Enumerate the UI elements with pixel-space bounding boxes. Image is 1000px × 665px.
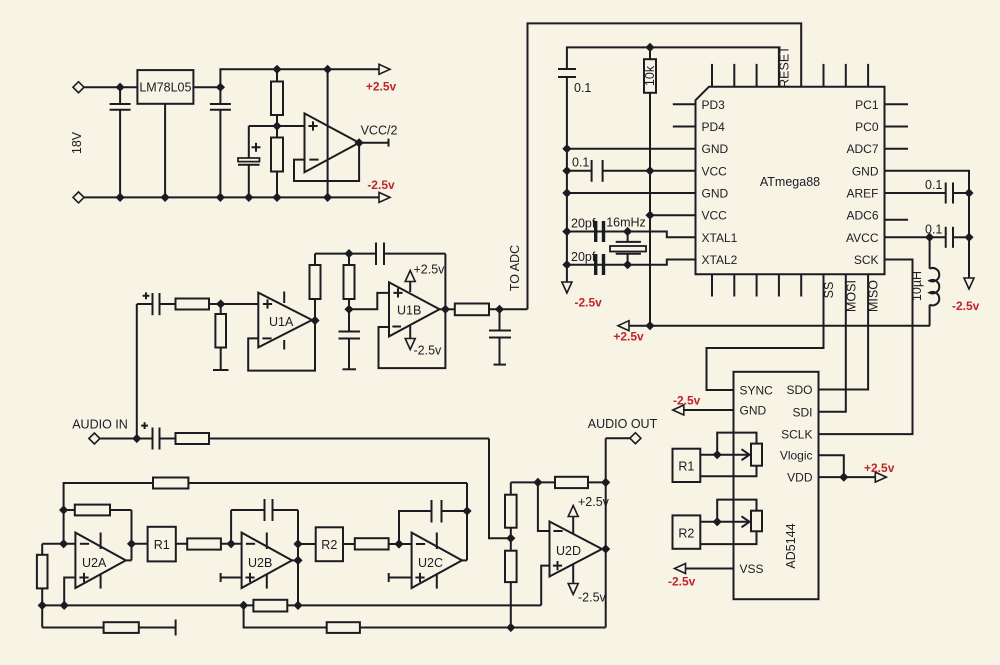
svg-text:GND: GND [702, 187, 729, 201]
wire feedback VCC/2 [294, 143, 359, 181]
wire pot2 loop bottom [700, 531, 756, 544]
svg-text:GND: GND [740, 404, 767, 418]
node gnd2 rail [562, 188, 571, 197]
wire U1A output [312, 320, 315, 322]
resistor R-fb-top [153, 478, 188, 489]
node U2B out [293, 556, 302, 565]
wire U1B -supply [409, 326, 411, 339]
wire VCC/2 output [359, 142, 388, 144]
wire U2A output [126, 559, 132, 561]
wire AREF row [885, 192, 946, 194]
wire lower row1 [42, 627, 175, 629]
wire U2D -supply [572, 564, 574, 584]
pin arrow U1B +2.5v [405, 271, 415, 282]
svg-text:-2.5v: -2.5v [367, 178, 395, 192]
wire VSS row [686, 568, 734, 570]
node u2d minus drop [533, 478, 542, 487]
node u2d fb rail [601, 478, 610, 487]
node cap-out bottom [216, 193, 225, 202]
node +2.5v 10k-rail [645, 321, 654, 330]
resistor R-u2c-in [343, 538, 412, 549]
pin stub top2 [733, 64, 735, 87]
wire top row to feedback cap [315, 253, 376, 255]
svg-text:10k: 10k [643, 65, 657, 86]
svg-text:18V: 18V [70, 131, 84, 154]
potentiometer P2 [751, 511, 762, 532]
wire U1B +supply [409, 281, 411, 292]
pin arrow right-rail -2.5v [964, 278, 974, 289]
pin arrow U1B -2.5v [405, 339, 415, 350]
wire bottom -2.5v rail [79, 196, 381, 198]
node audio-in split [132, 434, 141, 443]
resistor R-div-u2d-bot [505, 551, 517, 582]
svg-text:U2B: U2B [248, 556, 272, 570]
svg-text:ADC7: ADC7 [846, 142, 878, 156]
wire reset pullup row [567, 47, 779, 86]
capacitor C-reset 0.1 [558, 69, 591, 288]
node avcc ind [925, 233, 934, 242]
wire u2d minus [538, 482, 550, 531]
pin stub PD3 [673, 103, 696, 105]
potentiometer P1 [751, 444, 762, 466]
capacitor C-u2b [231, 499, 298, 521]
block R1 [148, 527, 176, 562]
svg-text:+2.5v: +2.5v [366, 80, 397, 94]
wire GND row [567, 148, 696, 150]
node U2B to R2 [293, 539, 302, 548]
wire top feedback row [64, 483, 467, 544]
wire +2.5v row [619, 325, 930, 327]
svg-text:PC0: PC0 [855, 120, 879, 134]
crystal X1 16mHz [606, 216, 646, 265]
pin stub ADC6 [885, 219, 909, 221]
wire divider chain [276, 69, 278, 197]
node railB bottom-row [38, 601, 47, 610]
svg-text:XTAL1: XTAL1 [702, 231, 738, 245]
resistor R-bottom [253, 600, 287, 612]
capacitor C-adc [489, 309, 511, 364]
pin stub top1 [711, 64, 713, 87]
svg-text:R1: R1 [154, 538, 170, 552]
svg-text:GND: GND [702, 142, 729, 156]
block R1-ad [673, 449, 701, 482]
pin power tick U2C top [436, 533, 438, 550]
svg-text:PC1: PC1 [855, 98, 879, 112]
wire U2A plus input [64, 578, 75, 606]
capacitor C-vcc 0.1 [572, 156, 696, 182]
svg-text:+2.5v: +2.5v [613, 330, 644, 344]
svg-text:ADC6: ADC6 [846, 209, 878, 223]
capacitor C-u2c [432, 500, 468, 523]
svg-text:VDD: VDD [787, 471, 813, 485]
IC U5 AD5144 [734, 372, 819, 599]
pin arrow U2D -2.5v [568, 584, 578, 595]
wire U1B output [440, 308, 455, 310]
svg-text:R2: R2 [321, 538, 337, 552]
wire MISO to SDO [819, 274, 869, 389]
svg-text:TO ADC: TO ADC [508, 245, 522, 291]
wire GND-ad row [684, 409, 734, 411]
node crystal top [623, 227, 632, 236]
wire to U2D divider [489, 439, 511, 539]
node VCC/2 output [355, 138, 364, 147]
wire U2B plus input [221, 577, 242, 579]
svg-text:0.1: 0.1 [574, 81, 591, 95]
svg-text:SYNC: SYNC [740, 384, 774, 398]
node cap-in bottom [116, 193, 125, 202]
capacitor C-u1b-fb [376, 243, 445, 266]
pin arrow +2.5v mcu [618, 321, 629, 331]
svg-text:LM78L05: LM78L05 [139, 81, 191, 95]
capacitor C-in [110, 87, 131, 197]
resistor R-u1a-in [176, 299, 259, 310]
node railA minus [59, 539, 68, 548]
svg-text:U2D: U2D [556, 544, 581, 558]
pin tick u1b-gnd [343, 368, 357, 370]
resistor R-u2b-in [176, 538, 242, 549]
wire pot1 wiper [700, 454, 748, 456]
wire pot1 loop top [717, 433, 756, 455]
wire railB [41, 544, 43, 628]
connector pin AUDIO OUT [630, 433, 641, 444]
op-amp U2B [242, 533, 292, 588]
inductor L1 10uH [910, 237, 939, 325]
wire MOSI to SDI [819, 274, 846, 412]
node u1b plus input [344, 305, 353, 314]
node divider mid [506, 534, 515, 543]
wire u2a minus row [42, 543, 75, 545]
pin arrow gnd-ad -2.5v [673, 405, 684, 415]
pin stub bottom4 [778, 274, 780, 296]
pin power tick U2A bottom [100, 574, 102, 588]
svg-text:R2: R2 [678, 526, 694, 540]
node vdd [839, 473, 848, 482]
node U1A output [310, 316, 319, 325]
resistor R-lower2 [327, 622, 360, 633]
svg-text:-2.5v: -2.5v [414, 344, 443, 358]
wire audio-out rail [605, 438, 607, 627]
wire U1A feedback [248, 321, 315, 371]
arrowhead pot1 wiper [742, 449, 750, 460]
node u2c out cap [462, 506, 471, 515]
svg-text:-2.5v: -2.5v [952, 299, 980, 313]
wire to R2 [298, 543, 316, 545]
svg-text:SCK: SCK [854, 253, 879, 267]
pin stub top7 [845, 64, 847, 87]
node crystal bottom [623, 260, 632, 269]
resistor R-u2a-fb [64, 505, 132, 516]
wire SCK row [819, 260, 913, 435]
node 10k top [645, 43, 654, 52]
pin arrow vdd +2.5v [875, 472, 886, 482]
svg-text:AUDIO OUT: AUDIO OUT [588, 417, 658, 431]
resistor R-u1a-fb vertical [310, 254, 321, 321]
wire divider chain [510, 482, 512, 627]
svg-text:-2.5v: -2.5v [575, 296, 603, 310]
capacitor C-u1a input polarized [137, 292, 176, 315]
pin tick u2b plus [220, 573, 222, 582]
pin arrow -2.5v [379, 192, 390, 202]
block R2 [316, 527, 343, 561]
pin stub bottom5 [800, 274, 802, 296]
wire U1B feedback [379, 254, 446, 369]
svg-text:+2.5v: +2.5v [864, 461, 895, 475]
wire audio out [606, 437, 632, 439]
op-amp U1A [258, 293, 312, 348]
svg-text:U2A: U2A [82, 556, 107, 570]
svg-text:VSS: VSS [740, 562, 764, 576]
resistor R-10k [643, 47, 657, 92]
wire +2.5v rail [220, 69, 380, 87]
svg-text:0.1: 0.1 [572, 156, 589, 170]
wire pot2 loop top [717, 500, 756, 522]
capacitor C-20pf-2 [571, 250, 605, 275]
pin power tick U2B top [266, 533, 268, 550]
wire Vlogic to VDD [819, 455, 844, 477]
svg-text:PD3: PD3 [702, 98, 726, 112]
pin stub bottom1 [711, 274, 713, 296]
svg-text:XTAL2: XTAL2 [702, 253, 738, 267]
node lower2 divider [506, 623, 515, 632]
svg-text:R1: R1 [678, 460, 694, 474]
svg-text:VCC: VCC [702, 209, 728, 223]
pin tick c-adc [494, 364, 507, 366]
pin tick VCC/2 [388, 139, 390, 147]
svg-text:AVCC: AVCC [846, 231, 879, 245]
wire GND2 row [567, 192, 696, 194]
svg-text:U2C: U2C [418, 556, 443, 570]
pin power tick U2A top [100, 533, 102, 550]
resistor R-u1b-out [455, 304, 528, 316]
node bottom u2b riser [293, 601, 302, 610]
resistor R-div-top [271, 82, 283, 116]
wire AVCC row [885, 236, 946, 238]
regulator U3 LM78L05 [137, 70, 193, 104]
capacitor C-avcc 0.1 [925, 223, 969, 248]
IC U4 ATmega88 [696, 87, 885, 275]
pin tick lower1 [175, 620, 177, 636]
svg-text:ATmega88: ATmega88 [760, 175, 820, 189]
node avcc rail [964, 233, 973, 242]
node U2D output [601, 544, 610, 553]
op-amp U2D [550, 522, 603, 577]
wire audio-in riser to U1A chain [136, 304, 138, 439]
node xtal1 rail [562, 227, 571, 236]
svg-text:VCC/2: VCC/2 [361, 124, 398, 138]
pin arrow U2D +2.5v [568, 506, 578, 517]
pin stub top6 [823, 64, 825, 87]
op-amp U2A [75, 533, 125, 588]
wire GND3 right [885, 171, 970, 284]
node adc cap [495, 305, 504, 314]
resistor R-div-u2d-top [505, 495, 517, 528]
op-amp U1B [389, 282, 440, 336]
op-amp U2C [412, 533, 462, 588]
wire into U1B plus [349, 293, 389, 309]
pin stub ADC7 [885, 148, 909, 150]
pin stub top3 [756, 64, 758, 87]
pin stub PC1 [885, 103, 909, 105]
svg-text:VCC: VCC [702, 164, 728, 178]
wire divider mid to cap and op-amp [249, 125, 305, 127]
wire VCC row left [567, 170, 592, 172]
capacitor C-20pf-1 [571, 217, 605, 243]
node divider bottom [272, 193, 281, 202]
pin power tick U2C bottom [436, 574, 438, 588]
svg-text:SDI: SDI [792, 405, 812, 419]
pin arrow left-rail -2.5v [562, 282, 572, 293]
svg-text:AUDIO IN: AUDIO IN [72, 418, 128, 432]
wire u2b cap riser [230, 510, 232, 544]
wire bottom row [42, 604, 541, 606]
capacitor C-aref 0.1 [925, 178, 969, 204]
resistor R-u2-in [176, 433, 490, 444]
node gnd rail [562, 144, 571, 153]
node vcc2 10k-rail [645, 211, 654, 220]
connector pin AUDIO IN [89, 433, 100, 444]
wire top input rail 18V [79, 86, 221, 88]
svg-text:16mHz: 16mHz [606, 216, 646, 230]
svg-text:0.1: 0.1 [925, 223, 942, 237]
node C-el bottom [244, 193, 253, 202]
pin stub PD4 [673, 126, 696, 128]
node u1a input [216, 299, 225, 308]
pin tick u2c plus [388, 573, 390, 582]
svg-text:-2.5v: -2.5v [673, 394, 701, 408]
svg-text:20pf: 20pf [571, 250, 596, 264]
wire U2D output [602, 548, 606, 550]
wire pot2 wiper [700, 521, 748, 523]
wire SS to SYNC [707, 274, 824, 390]
svg-text:PD4: PD4 [702, 120, 726, 134]
svg-text:U1A: U1A [269, 315, 294, 329]
connector pin 18V top [73, 82, 84, 93]
wire xtal1 row [567, 232, 696, 238]
wire u2c cap riser [399, 511, 432, 544]
svg-text:-2.5v: -2.5v [668, 575, 696, 589]
pin tick u1a-gnd [213, 369, 229, 371]
wire U2B output [292, 559, 298, 561]
node xtal2 rail [562, 260, 571, 269]
pin arrow +2.5v [379, 64, 390, 74]
resistor R-railB [37, 555, 48, 589]
wire lower row2 [244, 605, 606, 627]
node LM78L05 gnd [161, 193, 170, 202]
node u2c minus [394, 539, 403, 548]
node railA fb [59, 505, 68, 514]
wire u2c out riser [466, 483, 468, 560]
pin stub bottom3 [756, 274, 758, 296]
pin power tick U1A bottom [283, 340, 285, 350]
node U1B output [441, 305, 450, 314]
resistor R-u1a-gnd vertical [215, 304, 226, 370]
arrowhead pot2 wiper [742, 516, 750, 527]
svg-text:GND: GND [852, 164, 879, 178]
svg-text:+2.5v: +2.5v [414, 263, 446, 277]
svg-text:0.1: 0.1 [925, 178, 942, 192]
svg-text:20pf: 20pf [571, 217, 596, 231]
connector pin 18V bottom [73, 192, 84, 203]
node pot2 [713, 517, 722, 526]
svg-text:AD5144: AD5144 [784, 523, 798, 568]
wire U2D +supply [572, 516, 574, 534]
node u2b minus [227, 539, 236, 548]
wire xtal2 row [567, 260, 696, 265]
wire TO ADC riser [528, 23, 802, 309]
pin stub PC0 [885, 126, 909, 128]
node u2a plus bottom [60, 601, 69, 610]
pin arrow vss -2.5v [675, 564, 686, 574]
wire u2d fb row [511, 481, 606, 483]
node divider top [272, 65, 281, 74]
capacitor C-el electrolytic [238, 126, 261, 197]
node cap-out top [216, 83, 225, 92]
wire u2a fb riser [131, 510, 133, 560]
node aref rail [964, 188, 973, 197]
svg-text:SCLK: SCLK [781, 428, 812, 442]
resistor R-u2d-fb [555, 477, 588, 488]
wire u2b out riser [297, 510, 299, 605]
capacitor C-u2-in polarized [141, 422, 175, 449]
svg-text:-2.5v: -2.5v [578, 591, 607, 605]
pin power tick U2B bottom [266, 574, 268, 588]
wire U2C plus input [389, 577, 412, 579]
svg-text:SDO: SDO [786, 383, 812, 397]
resistor R-div-bottom [271, 138, 283, 172]
pin power tick U1A top [283, 292, 285, 304]
resistor R-lower1 [104, 622, 139, 633]
capacitor C-u1b-gnd [339, 309, 361, 369]
node pot1 [713, 450, 722, 459]
svg-text:U1B: U1B [397, 304, 421, 318]
wire U2C output [462, 559, 467, 561]
wire VCC2 row [650, 214, 696, 216]
pin stub bottom2 [733, 274, 735, 296]
capacitor C-out [210, 87, 231, 197]
node U2A out [127, 539, 136, 548]
wire VDD row [819, 476, 886, 478]
node vcc 10k-rail [645, 166, 654, 175]
wire u2d plus [541, 566, 549, 606]
node op-amp power top [323, 65, 332, 74]
wire op-amp power rail [327, 69, 329, 197]
pin stub top8 [867, 64, 869, 87]
block R2-ad [673, 515, 701, 548]
node op-amp power bottom [323, 193, 332, 202]
wire LM78L05 ground pin [164, 104, 166, 198]
node r2-top [344, 249, 353, 258]
node cap-in top [116, 83, 125, 92]
wire U2A out to R1 [132, 543, 148, 545]
node vcc rail [562, 166, 571, 175]
node bottom drop [239, 601, 248, 610]
wire pot1 loop bottom [700, 466, 756, 477]
svg-text:AREF: AREF [846, 187, 878, 201]
resistor R-u1b vertical [344, 254, 355, 310]
wire audio in [98, 438, 153, 440]
node divider mid [272, 121, 281, 130]
op-amp U1C VCC/2 buffer [305, 113, 360, 172]
svg-text:Vlogic: Vlogic [780, 449, 813, 463]
wire vcc rail 10k [649, 93, 651, 326]
